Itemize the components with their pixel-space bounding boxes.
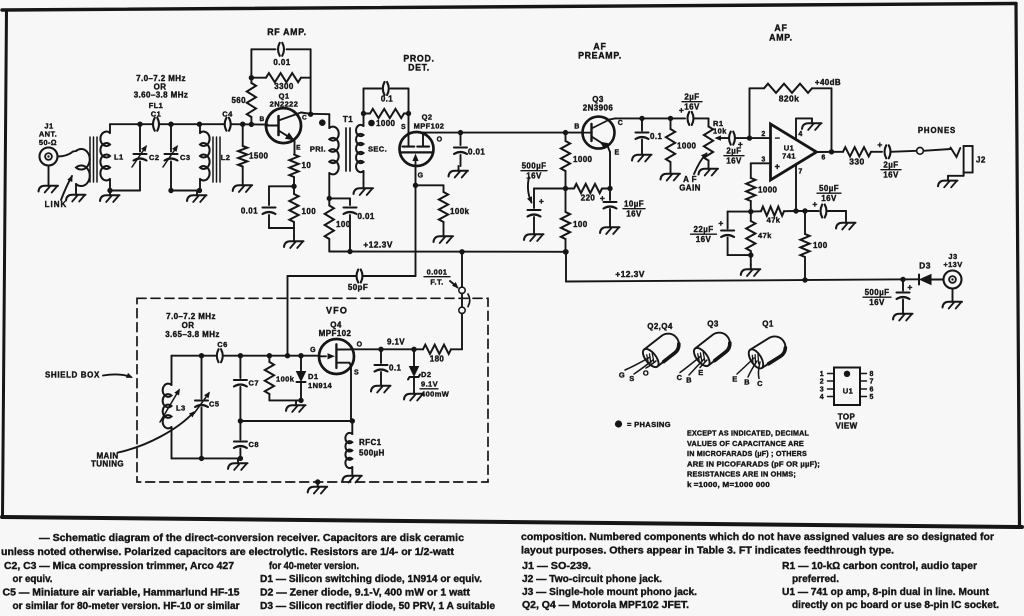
label +12.3V left [363, 240, 393, 250]
variable capacitor C3 [163, 124, 178, 190]
svg-text:L1: L1 [114, 153, 124, 162]
label pin3 [761, 157, 765, 164]
label frequency range [165, 312, 220, 339]
diode D3 [919, 275, 944, 285]
svg-text:E: E [614, 150, 619, 157]
svg-text:ARE IN PICOFARADS (pF OR µµF);: ARE IN PICOFARADS (pF OR µµF); [687, 459, 820, 468]
svg-text:C: C [757, 379, 763, 388]
svg-text:unless noted otherwise. Polari: unless noted otherwise. Polarized capaci… [1, 547, 455, 558]
resistor 1000 op-amp [746, 178, 755, 212]
svg-text:47k: 47k [758, 231, 772, 240]
node output [829, 149, 834, 154]
svg-text:2: 2 [761, 131, 765, 138]
labels R1 10k [713, 119, 727, 136]
svg-text:+12.3V: +12.3V [615, 269, 645, 279]
label S Q2 [401, 124, 406, 131]
svg-text:or equiv.: or equiv. [13, 574, 53, 585]
node 100 bottom rail [802, 277, 807, 282]
svg-text:D1: D1 [308, 372, 318, 381]
svg-text:C4: C4 [222, 110, 233, 119]
label AF GAIN [679, 175, 701, 193]
svg-text:J1 — SO-239.: J1 — SO-239. [522, 561, 591, 572]
svg-text:U1 — 741 op amp, 8-pin dual in: U1 — 741 op amp, 8-pin dual in line. Mou… [782, 587, 990, 598]
J1 labels [39, 122, 57, 148]
svg-text:composition. Numbered componen: composition. Numbered components which d… [521, 532, 994, 543]
svg-text:G: G [310, 347, 316, 354]
label S Q4 [354, 370, 359, 377]
svg-text:22µF: 22µF [694, 225, 714, 234]
label 180 [430, 355, 445, 364]
resistor 10 [289, 155, 298, 187]
wire to Q2 source [408, 114, 410, 135]
arrow AF GAIN [694, 153, 708, 175]
resistor 180 [423, 345, 462, 354]
wire feedback down [831, 88, 833, 152]
svg-text:8: 8 [870, 371, 874, 378]
node collector 0.1 [639, 116, 644, 121]
svg-text:0.01: 0.01 [358, 212, 375, 221]
caption text [1, 532, 999, 612]
label 100k proddet [450, 207, 470, 216]
capacitor 22uF [721, 231, 751, 256]
phasing dot PRI [319, 119, 326, 126]
node 220 left [563, 186, 568, 191]
labels Q2 MPF102 [414, 113, 445, 131]
svg-text:100: 100 [302, 207, 317, 216]
capacitor C4 [225, 118, 231, 131]
wire to 0.01 T1 [329, 198, 350, 205]
svg-text:1N914: 1N914 [308, 381, 333, 390]
transistor Q1 [266, 108, 301, 143]
svg-text:220: 220 [581, 194, 596, 203]
capacitor 500uF right [897, 279, 910, 309]
labels Q3 2N3906 [583, 95, 614, 113]
package Q3 [677, 328, 735, 384]
capacitor 2uF coupling [688, 112, 694, 125]
resistor 3300 [249, 73, 311, 82]
svg-text:EXCEPT AS INDICATED, DECIMAL: EXCEPT AS INDICATED, DECIMAL [687, 429, 809, 438]
capacitor C6 [217, 349, 223, 362]
node D2 top [411, 347, 416, 352]
R1 wiper arrow [715, 135, 724, 140]
JFET Q4 [319, 339, 354, 374]
feedthrough capacitor 0.001 FT [459, 287, 470, 313]
shield box dashed border [137, 298, 488, 482]
capacitor 0.01 feedback [278, 43, 284, 56]
wire PRI top [328, 114, 330, 128]
svg-text:400mW: 400mW [421, 390, 450, 399]
wire 330 to cap [871, 151, 882, 153]
svg-text:10k: 10k [713, 127, 727, 136]
svg-text:C7: C7 [249, 379, 259, 388]
svg-text:R1 — 10-kΩ carbon control, aud: R1 — 10-kΩ carbon control, audio taper [782, 561, 977, 572]
svg-text:VIEW: VIEW [835, 422, 857, 431]
label 47k horizontal [767, 216, 781, 225]
svg-text:VFO: VFO [326, 306, 348, 316]
svg-text:S: S [354, 370, 359, 377]
svg-text:or similar for 80-meter versio: or similar for 80-meter version. HF-10 o… [13, 601, 240, 612]
svg-text:Q2, Q4 — Motorola MPF102 JFET.: Q2, Q4 — Motorola MPF102 JFET. [522, 600, 689, 611]
node rail preamp [563, 249, 568, 254]
node feedback left [249, 122, 254, 127]
wire J2 ground [948, 173, 964, 176]
units note text [687, 429, 820, 490]
svg-text:B: B [686, 376, 692, 385]
label 3300 [274, 82, 294, 91]
wire Q1 collector [301, 113, 329, 115]
node tank2 top-left [168, 122, 173, 127]
label 330 [849, 157, 864, 167]
svg-text:OR: OR [182, 321, 195, 330]
wire pin7 [795, 165, 797, 211]
label O Q2 [437, 137, 443, 144]
svg-text:D2 — Zener diode, 9.1-V, 400 m: D2 — Zener diode, 9.1-V, 400 mW or 1 wat… [260, 588, 471, 599]
capacitor 0.01 emitter [263, 208, 276, 215]
resistor 1000 collector [666, 118, 675, 169]
label 0.1 preamp [650, 132, 662, 141]
svg-text:C: C [677, 373, 683, 382]
plus 2uF coupling [679, 105, 684, 115]
label C5 [209, 400, 219, 409]
node 50uF 100 [802, 208, 807, 213]
svg-text:T1: T1 [343, 115, 353, 124]
svg-text:C3: C3 [180, 153, 190, 162]
svg-text:560: 560 [231, 96, 246, 105]
phasing dot and label 1000 [368, 119, 395, 128]
ground 0.1 VFO [371, 381, 391, 393]
node Q1 emitter chain [291, 184, 296, 189]
transformer T1 primary [329, 127, 338, 175]
wire SEC bottom [363, 171, 365, 184]
svg-text:6: 6 [870, 387, 874, 394]
core lines L1 [90, 137, 97, 182]
capacitor 500uF preamp [528, 210, 541, 230]
svg-text:7: 7 [798, 169, 802, 176]
wire 50pF down to VFO gate [287, 276, 289, 356]
package Q1 [732, 332, 789, 388]
label 2uF coupling [682, 93, 702, 112]
svg-text:AF: AF [774, 23, 787, 33]
resistor 560 with wire [247, 49, 256, 124]
label 1500 [249, 152, 269, 161]
wire PRI bottom [328, 173, 330, 198]
wire feedthrough to rail [459, 249, 464, 287]
label 50uF 16V [817, 184, 841, 203]
wire J1 to link [58, 152, 74, 157]
label 1000 collector [677, 142, 697, 151]
svg-text:16V: 16V [726, 157, 742, 166]
svg-text:C5: C5 [209, 400, 219, 409]
ground pin4 [802, 118, 822, 129]
resistor 220 [566, 184, 611, 193]
svg-text:AMP.: AMP. [769, 33, 793, 43]
svg-text:DET.: DET. [408, 63, 430, 73]
wire pin4 [796, 118, 812, 139]
node shield ground [315, 479, 320, 484]
svg-text:741: 741 [782, 152, 796, 161]
node 500uF right [900, 277, 905, 282]
wire Q4 source [350, 366, 352, 421]
svg-text:16V: 16V [626, 210, 642, 219]
label C7 [249, 379, 259, 388]
label C2 [149, 153, 159, 162]
transistor Q3 [583, 117, 615, 150]
wire 0.01 T1 bottom [349, 215, 351, 252]
label Q2,Q4 package [647, 322, 673, 331]
labels D2 9.1V 400mW [420, 370, 450, 399]
wire 180 to feedthrough [461, 314, 463, 350]
svg-text:2: 2 [820, 379, 824, 386]
label J2 [976, 156, 986, 165]
diode D1 [297, 356, 306, 401]
wire Q3 emitter [608, 147, 610, 189]
op-amp U1 [771, 124, 817, 180]
plus 500uF preamp [539, 196, 544, 206]
node 47k bottom [748, 252, 753, 257]
label C8 [249, 440, 259, 449]
variable capacitor C5 [194, 356, 210, 459]
plus 2uF output [877, 140, 882, 150]
svg-text:RESISTANCES ARE IN OHMS;: RESISTANCES ARE IN OHMS; [687, 470, 796, 479]
JFET Q2 [400, 132, 434, 166]
wire tank2 bottom [168, 188, 200, 193]
svg-text:B: B [744, 378, 750, 387]
inductor L1 [100, 124, 110, 190]
svg-text:100k: 100k [276, 375, 295, 384]
wire gate to 100k [416, 184, 444, 186]
label 1000 op-amp [758, 186, 778, 195]
node 0.01 det out [458, 130, 463, 135]
label VFO [326, 306, 348, 316]
rail +12.3V left segment [329, 249, 566, 254]
DIP pins [820, 371, 874, 401]
svg-text:4: 4 [798, 131, 802, 138]
svg-text:50µF: 50µF [819, 184, 839, 193]
svg-text:+: + [775, 162, 781, 172]
label L2 [221, 153, 231, 162]
ground Q1 emitter [284, 237, 304, 249]
wire link to ground [75, 184, 77, 190]
capacitor 0.1 preamp [636, 118, 649, 150]
ground R1 [699, 164, 719, 176]
svg-text:500µF: 500µF [522, 162, 547, 171]
node L2 top [197, 122, 202, 127]
svg-text:TOP: TOP [838, 413, 856, 422]
wire 0.01 bottom [269, 215, 294, 228]
wire SEC top [361, 111, 366, 126]
svg-text:D1 — Silicon switching diode,: D1 — Silicon switching diode, 1N914 or e… [260, 574, 482, 585]
ground J3 [943, 297, 963, 309]
package Q2,Q4 [619, 329, 683, 383]
core lines L2 [213, 137, 220, 182]
wire Q3 collector [610, 118, 686, 119]
svg-text:G: G [619, 371, 625, 380]
label 0.01 feedback [273, 58, 290, 67]
svg-text:— Schematic diagram of the dir: — Schematic diagram of the direct-conver… [39, 533, 464, 544]
label G Q4 [310, 347, 316, 354]
label L3 [176, 404, 186, 413]
svg-text:0.01: 0.01 [273, 58, 290, 67]
ground under link [66, 190, 86, 202]
plus 500uF right [907, 282, 912, 292]
label 50pF [348, 283, 368, 292]
label 2uF output [881, 161, 901, 180]
svg-text:E: E [732, 375, 737, 384]
phasing note [615, 420, 671, 429]
label Q1 package [762, 320, 774, 329]
ground shield box [308, 482, 328, 494]
svg-text:U1: U1 [843, 387, 853, 396]
transformer T1 secondary [356, 125, 363, 172]
wire tank1 top [110, 123, 153, 125]
svg-text:4: 4 [820, 394, 824, 401]
label pin2 [761, 131, 765, 138]
svg-text:F.T.: F.T. [430, 278, 443, 287]
rail +12.3V right [566, 279, 919, 281]
svg-text:O: O [643, 369, 649, 378]
labels Q1 pins [259, 115, 307, 152]
core T1 [346, 128, 350, 171]
svg-text:0.1: 0.1 [389, 364, 401, 373]
svg-text:IN MICROFARADS (µF) ; OTHERS: IN MICROFARADS (µF) ; OTHERS [687, 449, 807, 458]
wire C4 to Q1 base [231, 123, 268, 125]
svg-text:2N3906: 2N3906 [583, 104, 614, 113]
wire feedback up [750, 88, 765, 138]
ground 500uF right [893, 309, 913, 321]
svg-text:D3 — Silicon rectifier diode,: D3 — Silicon rectifier diode, 50 PRV, 1 … [260, 601, 495, 612]
node D1 top [298, 353, 303, 358]
variable capacitor C2 [132, 124, 147, 190]
resistor 100 emitter [289, 186, 298, 236]
svg-text:0.1: 0.1 [381, 95, 393, 104]
svg-text:7.0–7.2 MHz: 7.0–7.2 MHz [166, 312, 216, 321]
svg-text:50-Ω: 50-Ω [39, 138, 57, 147]
svg-text:−: − [775, 133, 781, 143]
wire VFO mid [238, 418, 355, 423]
potentiometer R1 [704, 127, 713, 165]
label 820k [779, 94, 800, 104]
label 0.1 VFO [389, 364, 401, 373]
svg-text:9.1V: 9.1V [421, 380, 438, 389]
svg-text:= PHASING: = PHASING [627, 420, 671, 429]
resistor 1500 [238, 124, 247, 180]
labels D1 1N914 [308, 372, 333, 390]
svg-text:MPF102: MPF102 [414, 122, 445, 131]
labels Q4 MPF102 [319, 321, 352, 339]
wire VFO top [172, 355, 320, 357]
svg-text:330: 330 [849, 157, 864, 167]
label AF AMP [769, 23, 793, 43]
node gate feed [285, 353, 290, 358]
wire J3 ground [952, 289, 954, 298]
label G Q2 [418, 173, 424, 180]
wire tank1 bottom [107, 188, 140, 193]
label 0.001 FT [424, 268, 450, 287]
svg-text:D2: D2 [421, 370, 431, 379]
svg-text:10: 10 [302, 161, 312, 170]
wire rail corner [563, 249, 568, 281]
node collector 1000 [668, 116, 673, 121]
svg-text:PREAMP.: PREAMP. [578, 51, 622, 61]
label 100 T1 [336, 220, 351, 229]
plus 10uF [600, 193, 605, 203]
svg-text:LINK: LINK [45, 200, 68, 209]
label 22uF 16V [691, 225, 717, 244]
svg-text:C5 — Miniature air variable, H: C5 — Miniature air variable, Hammarlund … [3, 588, 240, 599]
wire to J2 [923, 149, 950, 151]
svg-text:GAIN: GAIN [679, 184, 701, 193]
arrow MAIN TUNING [118, 411, 196, 453]
zener diode D2 [408, 349, 420, 388]
label 10 [302, 161, 312, 170]
svg-text:Q3: Q3 [707, 320, 719, 329]
plus 22uF [718, 218, 723, 228]
node 1500 top [240, 122, 245, 127]
ground 10uF [600, 223, 620, 235]
svg-text:Q1: Q1 [762, 320, 774, 329]
capacitor C7 [234, 356, 247, 421]
svg-text:MPF102: MPF102 [319, 329, 352, 338]
svg-text:3.65–3.8 MHz: 3.65–3.8 MHz [165, 330, 220, 339]
svg-text:E: E [296, 145, 301, 152]
ground 50uF [836, 218, 856, 230]
labels U1 741 [782, 144, 796, 161]
label 47k vertical [758, 231, 772, 240]
labels PROD DET [403, 54, 434, 73]
label 0.1 proddet [381, 95, 393, 104]
svg-text:16V: 16V [696, 235, 712, 244]
svg-text:RF AMP.: RF AMP. [267, 27, 307, 37]
resistor 1000 preamp base [561, 133, 570, 189]
labels RFC1 500uH [359, 438, 385, 458]
label +40dB [815, 78, 841, 87]
svg-text:180: 180 [430, 355, 445, 364]
link coupling coil [73, 149, 90, 186]
svg-text:2µF: 2µF [883, 161, 898, 170]
label 220 [581, 194, 596, 203]
ground RFC1 [342, 471, 362, 483]
svg-text:C: C [302, 115, 307, 122]
connector J3 [944, 271, 962, 289]
node Q2 gate [413, 183, 418, 188]
svg-text:VALUES OF CAPACITANCE ARE: VALUES OF CAPACITANCE ARE [687, 439, 804, 448]
svg-text:50pF: 50pF [348, 283, 368, 292]
inductor RFC1 [345, 421, 352, 471]
label Q3 package [707, 320, 719, 329]
node pin2 [747, 135, 752, 140]
jack J2 [951, 146, 973, 173]
labels Q1 2N2222 [270, 92, 299, 109]
wire 2uF to pin2 [735, 137, 771, 139]
svg-text:+40dB: +40dB [815, 78, 841, 87]
label input frequency range [134, 74, 189, 100]
label 0.01 det out [468, 148, 485, 157]
svg-text:+: + [877, 140, 882, 150]
capacitor C1 (FL1) [153, 118, 159, 131]
svg-text:+12.3V: +12.3V [363, 240, 393, 250]
svg-text:L2: L2 [221, 153, 231, 162]
svg-text:100: 100 [336, 220, 351, 229]
svg-text:+: + [600, 193, 605, 203]
label 2uF R1 [724, 147, 744, 166]
svg-text:C: C [618, 120, 623, 127]
label 500uF right [863, 288, 891, 307]
svg-text:B: B [259, 116, 264, 123]
label 0.01 emitter [241, 207, 258, 216]
svg-text:9.1V: 9.1V [387, 338, 405, 347]
svg-text:J2 — Two-circuit phone jack.: J2 — Two-circuit phone jack. [522, 574, 662, 585]
ground D2 [404, 389, 424, 401]
